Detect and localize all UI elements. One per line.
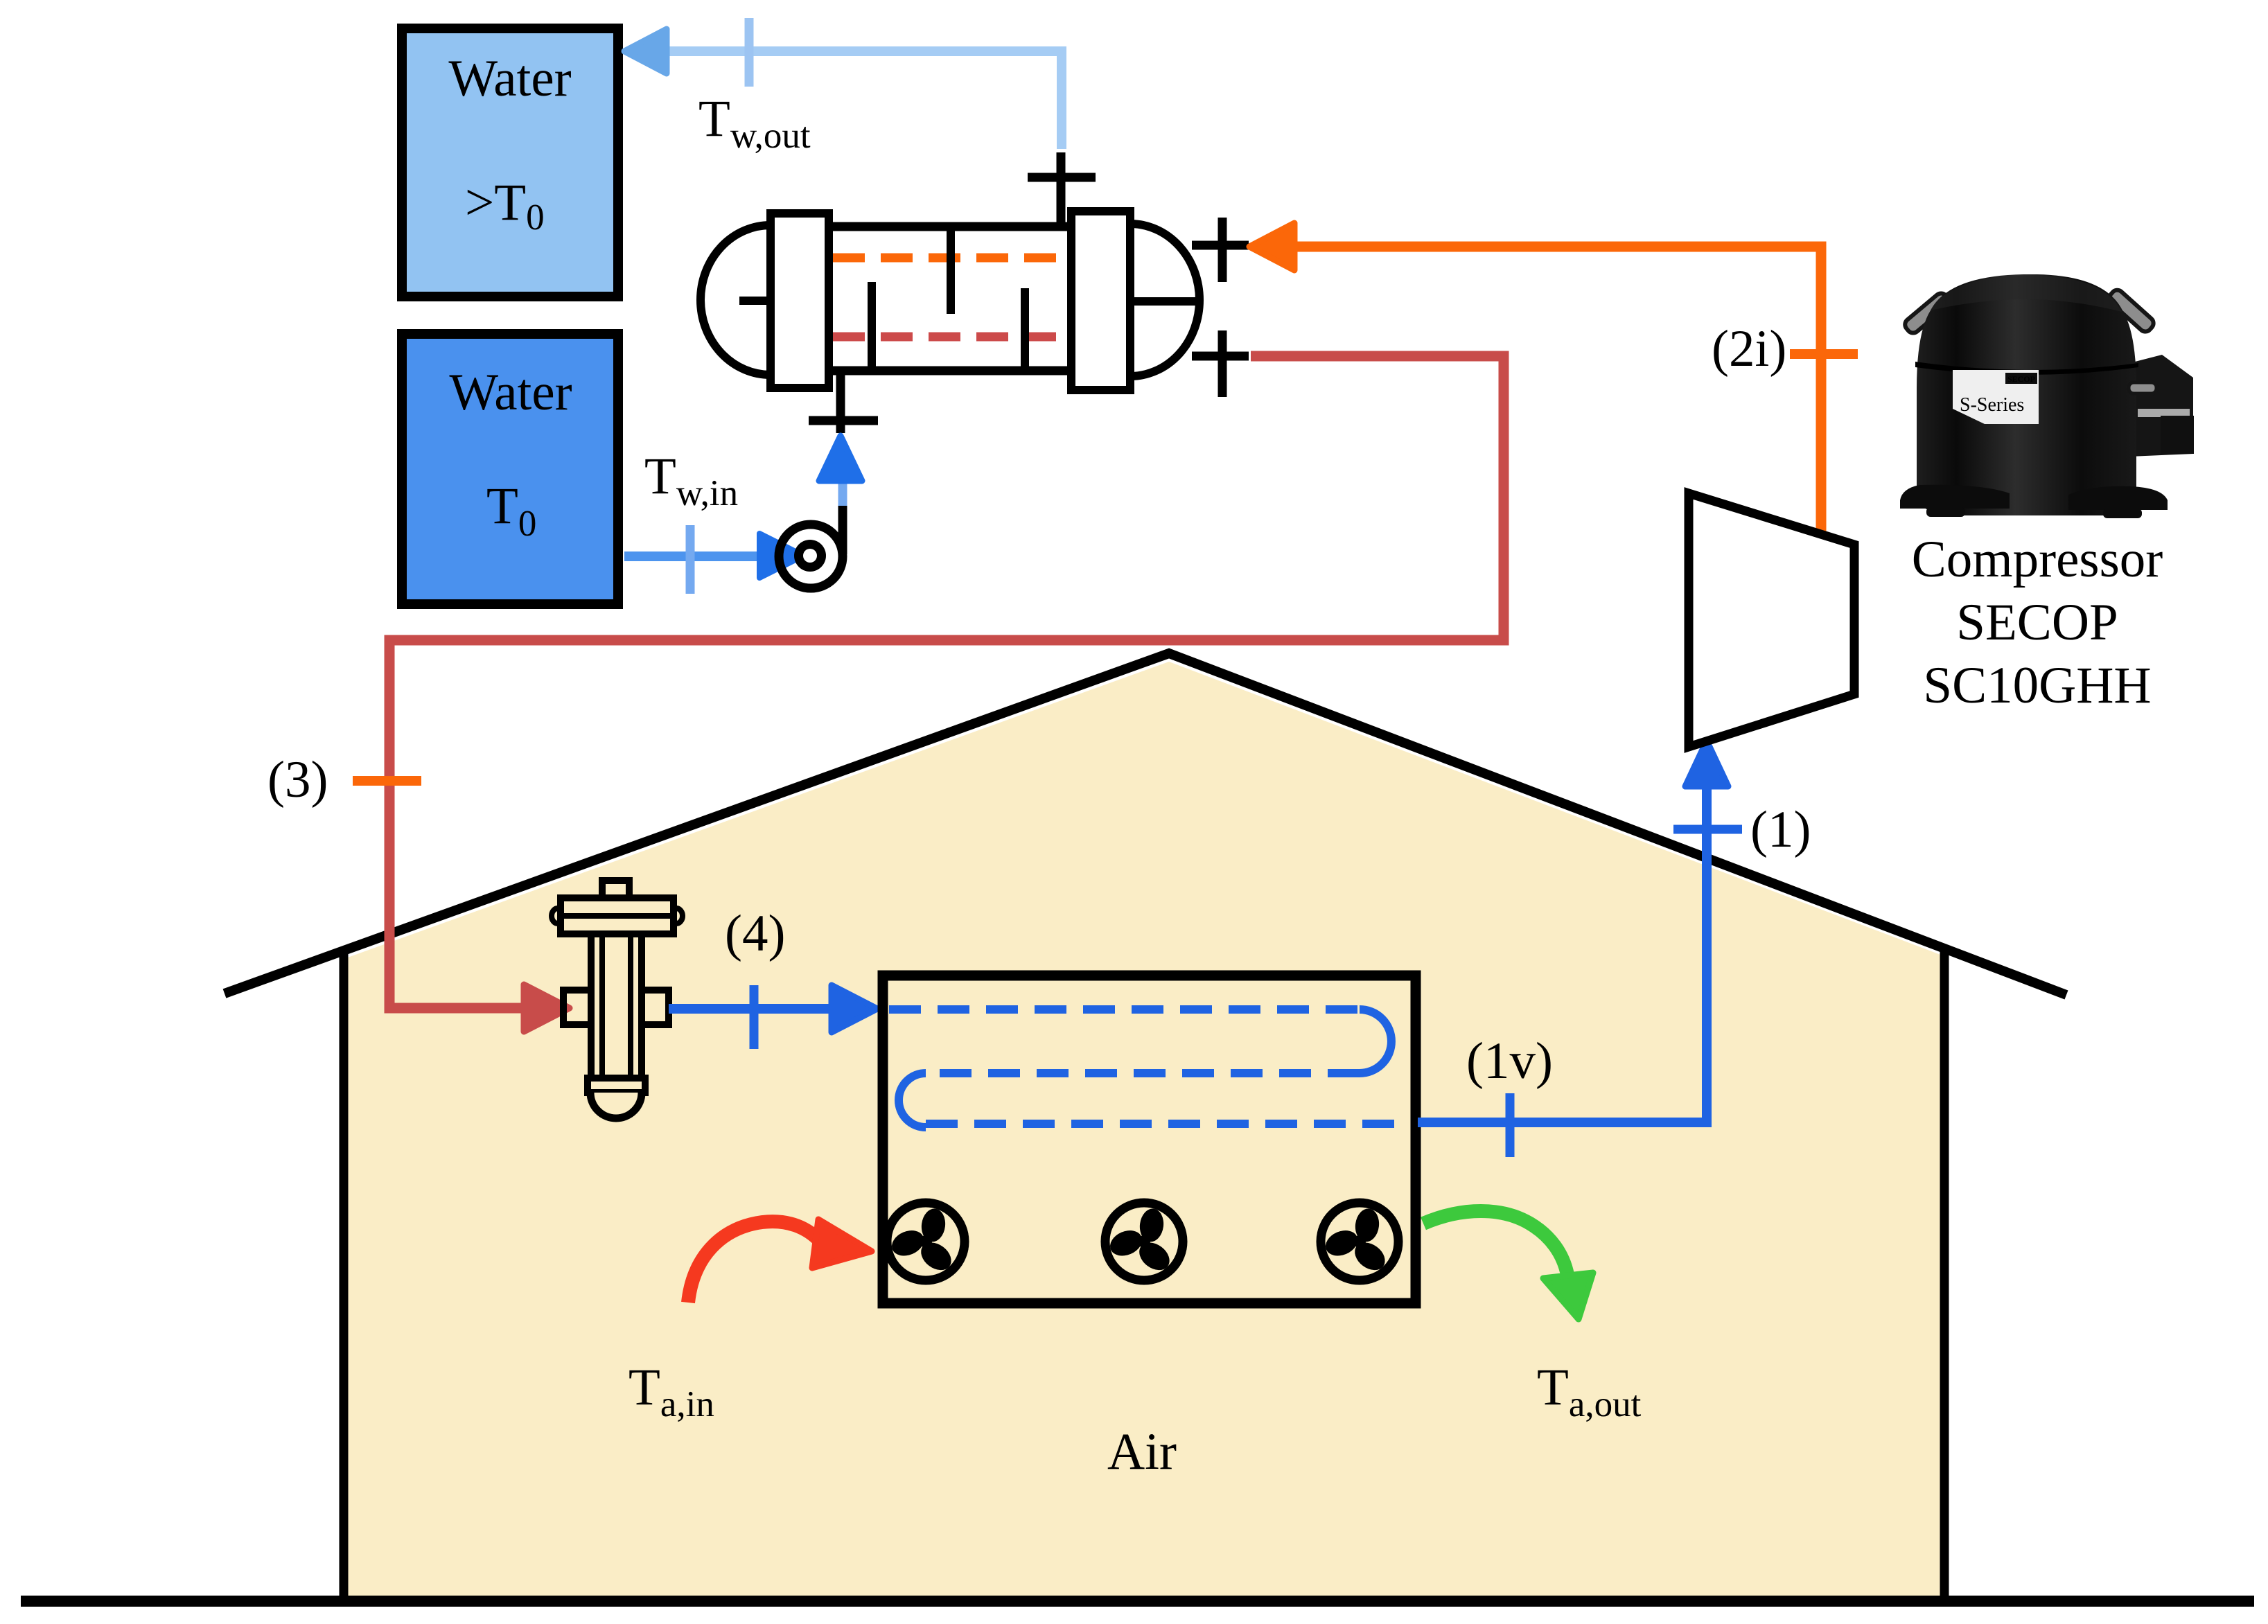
wire water outlet pipe (condenser to warm tank) xyxy=(660,51,1062,149)
condenser left tube sheet xyxy=(771,213,829,388)
tick 2i xyxy=(1790,349,1858,359)
condenser top right nozzle xyxy=(1192,218,1249,282)
pump xyxy=(779,504,843,588)
fan 3 xyxy=(1315,1192,1407,1282)
condenser baffle bottom left xyxy=(868,282,876,371)
arrow into pump xyxy=(759,533,804,578)
wire water inlet (cold tank to pump) xyxy=(624,551,766,561)
house left wall xyxy=(340,948,349,1601)
house fill xyxy=(346,662,1942,1596)
svg-text:(1): (1) xyxy=(1750,801,1811,858)
tick 4 xyxy=(750,985,759,1049)
svg-text:(2i): (2i) xyxy=(1712,320,1786,378)
condenser baffle bottom right xyxy=(1021,288,1029,374)
compressor photo xyxy=(1900,274,2194,518)
roof line xyxy=(225,653,2066,995)
condenser right stub xyxy=(1130,297,1197,306)
arrow into condenser bottom xyxy=(819,436,862,481)
evaporator coil right u-turn xyxy=(1360,1009,1391,1073)
evaporator coil left u-turn xyxy=(899,1073,926,1127)
Tw,in tick xyxy=(686,525,695,594)
condenser bottom right nozzle xyxy=(1192,330,1249,397)
arrow into expansion valve xyxy=(524,985,570,1032)
cold water tank xyxy=(402,334,618,604)
tube left xyxy=(1903,291,1952,335)
arrow into warm tank xyxy=(624,29,667,73)
svg-text:SC10GHH: SC10GHH xyxy=(1923,657,2151,714)
svg-text:(4): (4) xyxy=(725,905,785,962)
condenser liquid dashed line xyxy=(833,333,1071,342)
arrow into evaporator xyxy=(832,985,877,1032)
condenser baffle top xyxy=(947,229,955,314)
wire liquid line (condenser to expansion valve) xyxy=(389,356,1504,1008)
condenser left stub xyxy=(739,297,771,305)
condenser shell top xyxy=(829,222,1071,231)
svg-text:(3): (3) xyxy=(267,751,328,809)
warm water tank xyxy=(402,28,618,297)
condenser hot gas dashed line xyxy=(833,254,1071,263)
wire hot gas discharge (compressor to condenser) xyxy=(1289,247,1821,533)
condenser right cap xyxy=(1130,224,1199,376)
svg-text:SECOP: SECOP xyxy=(1956,594,2118,651)
evaporator coil top pass xyxy=(889,1005,1360,1014)
arrow into compressor xyxy=(1685,741,1728,786)
electrical box xyxy=(2113,355,2193,457)
svg-text:Compressor: Compressor xyxy=(1912,531,2163,588)
condenser right tube sheet xyxy=(1071,211,1130,390)
expansion valve xyxy=(552,881,683,1118)
wire expansion valve to evaporator xyxy=(669,1004,835,1014)
condenser bottom nozzle xyxy=(809,371,878,433)
condenser top nozzle xyxy=(1028,152,1096,229)
red air inlet arrow xyxy=(688,1221,820,1303)
tube right xyxy=(2107,288,2156,334)
svg-text:Water: Water xyxy=(448,50,571,107)
small port right side xyxy=(2129,382,2156,394)
feet xyxy=(1900,485,2010,509)
wire suction line (evaporator to compressor) xyxy=(1418,762,1707,1122)
evaporator box xyxy=(883,976,1416,1303)
green air outlet arrow xyxy=(1423,1211,1567,1275)
tick 1 xyxy=(1673,825,1742,834)
condenser shell bottom xyxy=(829,367,1071,376)
Tw,out tick xyxy=(745,18,754,87)
main body xyxy=(1917,274,2136,515)
svg-text:Air: Air xyxy=(1107,1423,1177,1481)
compressor symbol xyxy=(1689,493,1854,747)
ground line xyxy=(21,1596,2254,1607)
tick 1v xyxy=(1506,1093,1515,1157)
svg-text:Water: Water xyxy=(449,364,572,421)
evaporator coil bottom pass xyxy=(926,1120,1408,1128)
house right wall xyxy=(1940,946,1949,1601)
arrow into condenser right xyxy=(1249,223,1294,270)
condenser left cap xyxy=(701,225,771,375)
wire pump outlet xyxy=(838,481,847,506)
tick 3 xyxy=(353,776,421,786)
white label xyxy=(1953,370,2039,424)
svg-text:(1v): (1v) xyxy=(1466,1032,1553,1090)
evaporator coil middle pass xyxy=(926,1069,1360,1077)
fan 2 xyxy=(1100,1192,1191,1282)
svg-text:S-Series: S-Series xyxy=(1960,394,2024,416)
fan 1 xyxy=(881,1192,973,1282)
svg-text:SECOP: SECOP xyxy=(2007,374,2035,384)
